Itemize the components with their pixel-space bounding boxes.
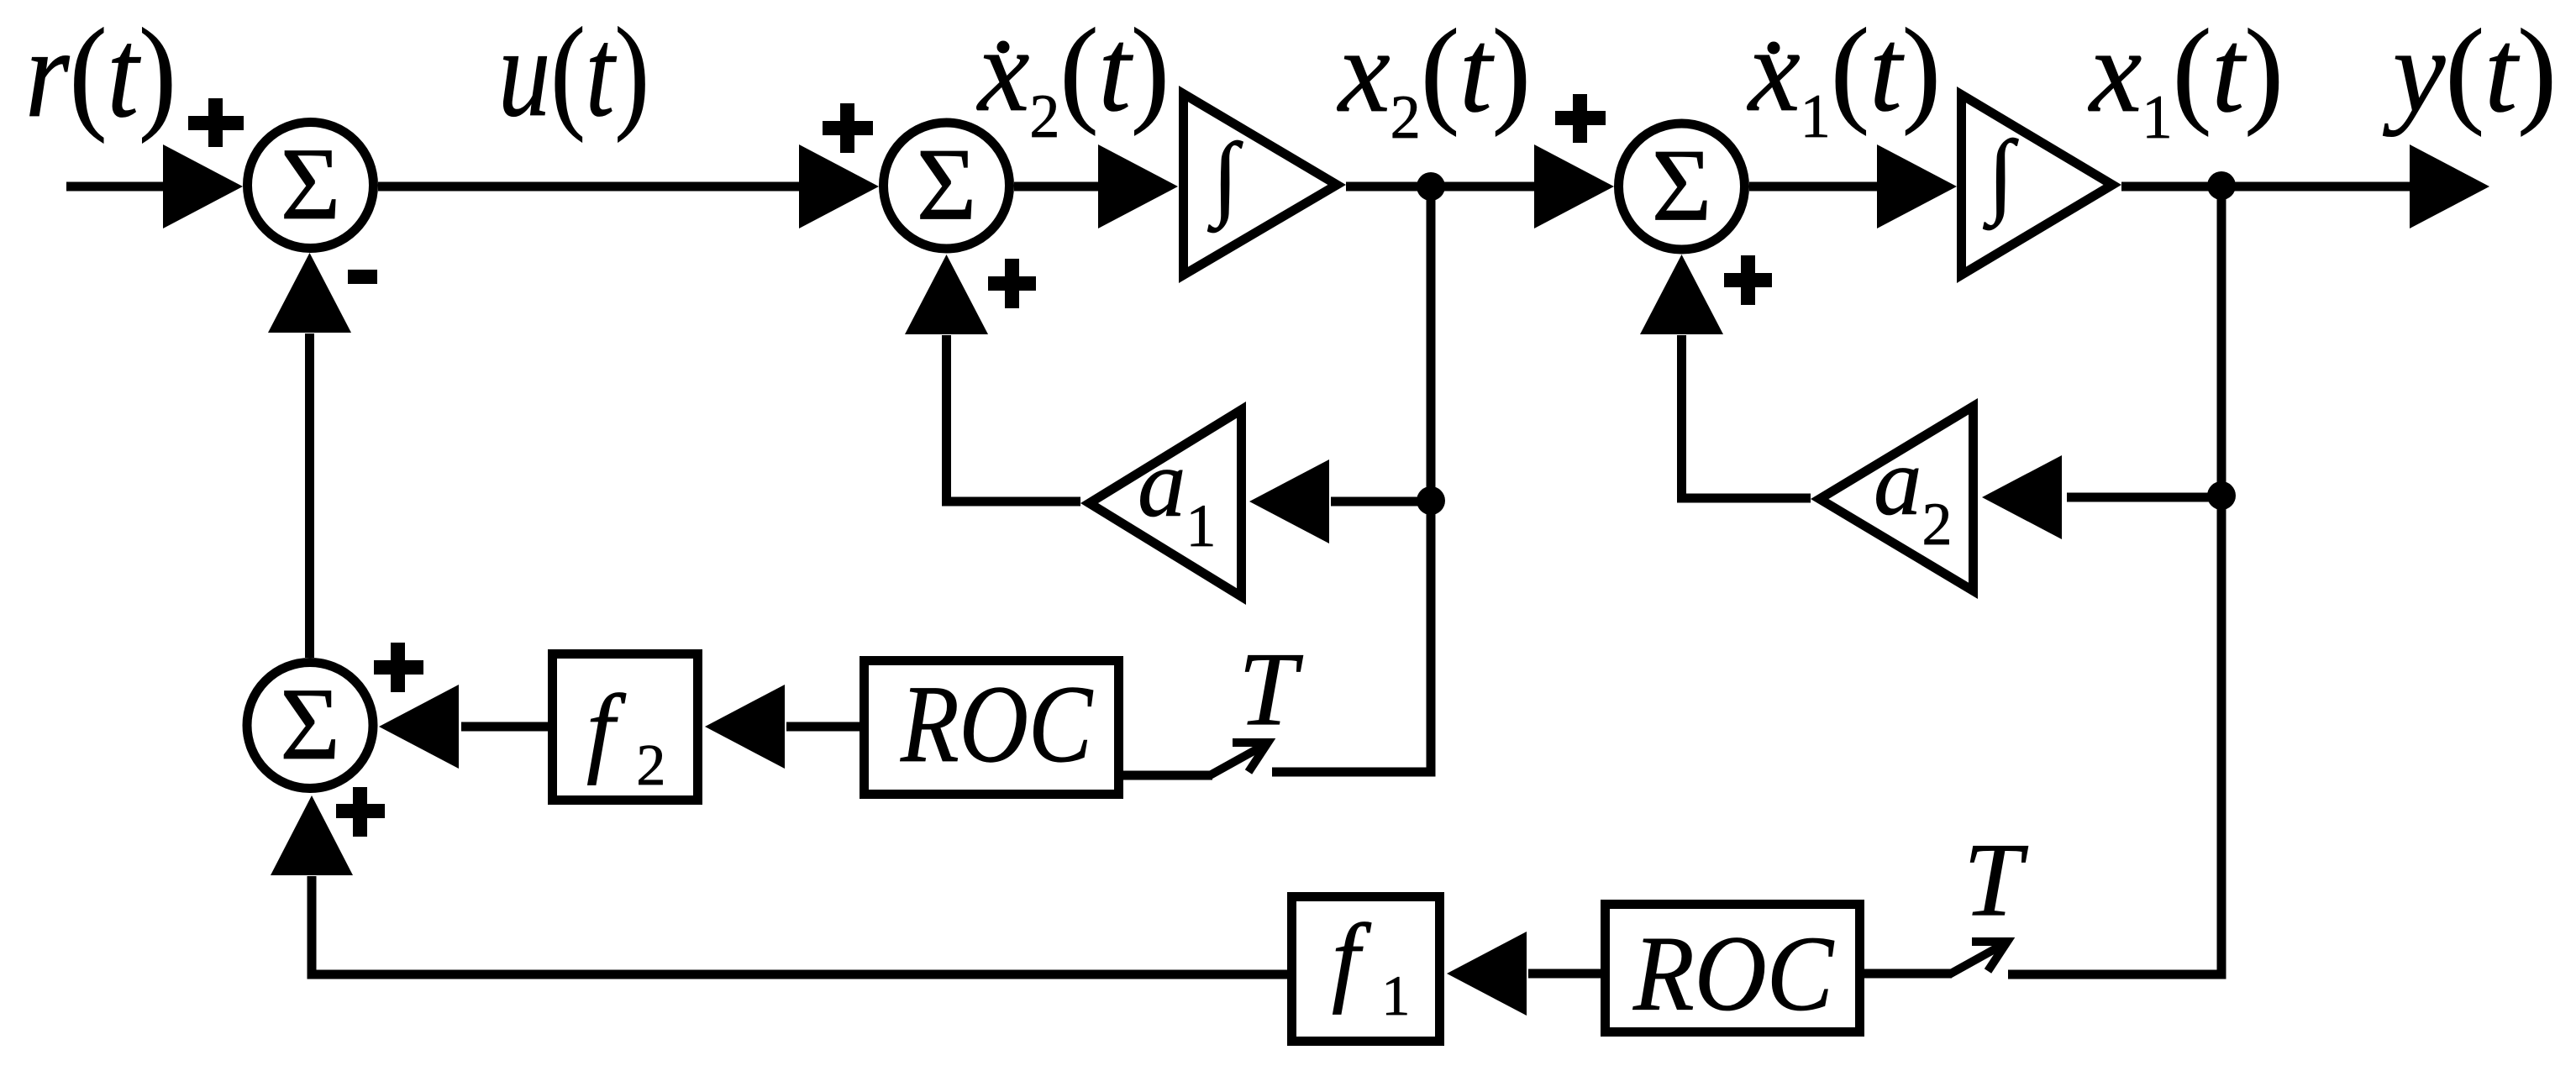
switch T1 arrowhead [1233, 743, 1268, 772]
svg-text:T: T [1238, 632, 1303, 748]
wire I2 to output [2121, 182, 2411, 192]
svg-text:x1(t): x1(t) [1747, 3, 1941, 151]
svg-text:x2(t): x2(t) [1337, 4, 1531, 152]
wire ROC1 to switch T1 [1123, 771, 1212, 780]
svg-text:x1(t): x1(t) [2088, 4, 2284, 152]
node dot a1 tap [1417, 486, 1445, 515]
svg-text:x2(t): x2(t) [976, 3, 1170, 151]
arrowhead into f2 [705, 685, 785, 769]
switch T2 arrowhead [1972, 942, 2007, 971]
arrowhead into S2 [799, 144, 879, 228]
svg-text:r(t): r(t) [25, 3, 176, 144]
arrowhead into S4 from below [271, 795, 353, 875]
wire gain a1 to S2 lower input [947, 335, 1081, 501]
switch T2 wiper [1949, 945, 2002, 974]
block ROC1 [865, 661, 1119, 795]
wire input r(t) [66, 182, 172, 192]
arrowhead into S3 from below [1640, 255, 1723, 334]
arrowhead into S2 from below [905, 255, 988, 334]
wire ROC1 to f2 [786, 722, 860, 732]
svg-text:u(t): u(t) [498, 2, 649, 143]
svg-text:∫: ∫ [1207, 124, 1243, 234]
plus sign at S2 lower input [988, 259, 1036, 308]
plus sign at S1 input [188, 98, 244, 147]
node x1 junction dot [2207, 171, 2236, 200]
switch T1 wiper [1210, 746, 1263, 775]
integrator I2 [1957, 87, 2121, 283]
svg-text:ROC: ROC [900, 662, 1094, 785]
wire u(t) from S1 to S2 [378, 182, 805, 192]
gain a2 triangle [1811, 398, 1978, 599]
arrowhead into S1 from below [268, 253, 351, 333]
label xdot1(t) [1747, 3, 1941, 151]
wire S4 up to S1 lower input [305, 333, 314, 658]
summing junction S4 [247, 663, 373, 789]
svg-text:ROC: ROC [1632, 914, 1834, 1033]
summing junction S3 [1619, 123, 1745, 249]
plus sign at S4 lower input [336, 787, 385, 837]
wire ROC2 to f1 [1528, 969, 1601, 979]
plus sign at S3 left input [1555, 94, 1606, 143]
minus sign at S1 lower input [348, 270, 377, 284]
wire bottom feedback from f1 to S4 [312, 876, 1287, 974]
integrator I1 [1179, 86, 1346, 283]
svg-text:y(t): y(t) [2383, 4, 2557, 137]
label xdot2(t) [976, 3, 1170, 151]
wire S2 to integrator I1 [1014, 182, 1102, 192]
summing junction S1 [248, 123, 374, 249]
wire x2 node vertical down to switch row [1272, 186, 1431, 772]
block f1 [1292, 897, 1440, 1042]
arrowhead into S4 from right [379, 685, 459, 769]
plus sign at S4 right input [374, 643, 423, 692]
block ROC2 [1606, 905, 1860, 1032]
svg-text:Σ: Σ [281, 126, 341, 241]
node x2 junction dot [1417, 172, 1445, 201]
arrowhead into S3 [1534, 144, 1614, 228]
svg-text:∫: ∫ [1983, 122, 2019, 231]
svg-text:T: T [1964, 822, 2028, 938]
node dot a2 tap [2207, 481, 2236, 510]
wire gain a2 to S3 lower input [1682, 335, 1811, 498]
arrowhead output y(t) [2410, 144, 2489, 228]
wire ROC2 to switch T2 [1864, 969, 1952, 979]
arrowhead into I1 [1098, 144, 1178, 228]
gain a1 triangle [1080, 402, 1246, 605]
summing junction S2 [884, 123, 1010, 249]
arrowhead into gain a1 [1249, 459, 1329, 543]
plus sign at S2 left input [823, 103, 873, 153]
wire x1 node vertical down to bottom row [2008, 186, 2221, 974]
arrowhead into summing junction S1 [163, 144, 243, 228]
wire I1 to S3 [1346, 182, 1539, 192]
wire S3 to integrator I2 [1749, 182, 1880, 192]
svg-text:Σ: Σ [1652, 128, 1712, 243]
arrowhead into I2 [1877, 144, 1957, 228]
block f2 [553, 654, 698, 801]
svg-text:Σ: Σ [280, 666, 340, 781]
plus sign at S3 lower input [1724, 255, 1772, 305]
arrowhead into gain a2 [1982, 455, 2062, 539]
wire f2 to S4 [461, 722, 548, 732]
arrowhead into f1 [1447, 932, 1527, 1016]
wire a1 tap to gain a1 [1331, 497, 1431, 507]
svg-text:Σ: Σ [917, 127, 977, 242]
wire a2 tap to gain a2 [2067, 493, 2221, 502]
